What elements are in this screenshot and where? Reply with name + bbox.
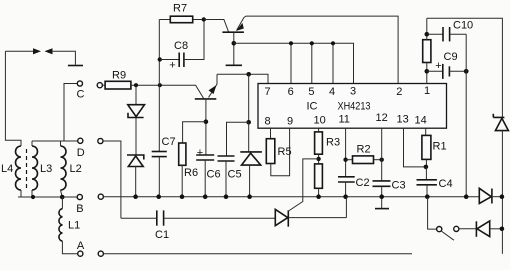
node R3 junction	[318, 154, 320, 164]
terminal A	[78, 251, 83, 256]
node C10 left	[425, 32, 430, 37]
node bus C9	[464, 194, 469, 199]
node pin12	[380, 158, 384, 162]
wire L3 bottom	[31, 190, 33, 197]
capacitor C10	[427, 33, 443, 35]
capacitor C3	[373, 180, 391, 182]
svg-text:6: 6	[288, 86, 294, 98]
svg-text:C2: C2	[356, 177, 370, 189]
svg-text:L4: L4	[1, 163, 13, 175]
zener diode VD2	[128, 156, 143, 167]
svg-text:1: 1	[424, 85, 430, 97]
diode VD5 on bus	[479, 188, 491, 203]
resistor R8	[423, 40, 431, 63]
svg-text:+: +	[435, 60, 441, 72]
wire pin8 stub	[270, 128, 272, 139]
ground plate Q1	[226, 64, 242, 66]
svg-text:L2: L2	[70, 163, 82, 175]
transistor Q1	[204, 20, 229, 32]
resistor R5	[266, 139, 275, 164]
node pin5 tap	[310, 41, 314, 45]
wire top right rail	[427, 18, 503, 117]
capacitor C7	[152, 151, 167, 153]
svg-text:C10: C10	[453, 20, 473, 32]
IC XH4213 U1	[258, 84, 447, 129]
resistor R6	[179, 143, 186, 165]
svg-text:R3: R3	[326, 137, 340, 149]
node bus C7	[156, 194, 161, 199]
node pin11	[343, 158, 347, 162]
svg-text:A: A	[77, 240, 85, 252]
wire R9 to Q2 base	[131, 85, 204, 98]
wire pin13 to R1 node	[404, 128, 426, 167]
spark gap left electrode	[5, 50, 36, 52]
node pin6 tap	[289, 41, 293, 45]
wire left antenna rail	[5, 51, 21, 146]
terminal D	[78, 138, 83, 143]
capacitor C4	[425, 167, 427, 180]
node R6 branch	[204, 119, 209, 124]
node C9 left	[425, 69, 430, 74]
svg-text:+: +	[169, 60, 175, 72]
inductor L4	[16, 146, 21, 190]
wire L4 bottom	[20, 190, 22, 197]
svg-text:4: 4	[329, 86, 335, 98]
node R1 C4	[424, 165, 429, 170]
svg-text:D: D	[77, 147, 85, 159]
node pin4 tap	[331, 41, 335, 45]
capacitor C2	[338, 176, 355, 178]
node bus C5	[224, 194, 229, 199]
wire Q2 collector to pin7	[217, 74, 268, 83]
svg-text:3: 3	[350, 86, 356, 98]
wire D to C1 line	[103, 141, 121, 218]
wire L2 top stub	[60, 141, 62, 146]
svg-text:R6: R6	[184, 167, 198, 179]
svg-text:9: 9	[287, 115, 293, 127]
node C5 diode branch	[246, 120, 251, 125]
capacitor C8	[158, 57, 162, 61]
node R7 output	[202, 17, 206, 21]
zener diode VD1	[128, 105, 145, 117]
resistor R1	[422, 135, 431, 159]
terminal input D pair	[98, 138, 103, 143]
svg-text:11: 11	[339, 114, 350, 126]
svg-text:C7: C7	[162, 136, 176, 148]
wire C9 C10 column to bus	[465, 34, 467, 197]
resistor R2	[346, 159, 353, 161]
wire bias row pins 6 5 4 3	[234, 43, 354, 83]
node bus C6	[203, 194, 208, 199]
bottom rail A	[103, 253, 412, 255]
node bus R6	[180, 194, 185, 199]
wire L3 top stub	[31, 141, 33, 146]
svg-text:R7: R7	[173, 3, 187, 15]
node C9 right	[464, 69, 469, 74]
terminal input A pair	[98, 251, 103, 256]
wire C5 branch	[227, 122, 249, 156]
node right rail switch	[500, 227, 505, 232]
wire zener to bus	[135, 167, 137, 197]
svg-text:C6: C6	[207, 169, 221, 181]
wire Q1 collector	[233, 32, 235, 65]
node right rail bus	[500, 194, 505, 199]
svg-text:+: +	[197, 147, 203, 159]
wire pin12 stub	[381, 128, 383, 181]
diode VD3	[248, 122, 250, 152]
svg-text:C8: C8	[174, 40, 188, 52]
inductor L2	[61, 146, 67, 190]
svg-text:7: 7	[265, 86, 271, 98]
svg-text:C5: C5	[228, 169, 242, 181]
wire pin1 stub	[426, 71, 428, 84]
node bus VD3	[247, 194, 252, 199]
svg-text:IC: IC	[307, 101, 318, 113]
svg-text:C: C	[77, 89, 85, 101]
terminal B	[77, 194, 82, 199]
svg-text:R1: R1	[433, 141, 447, 153]
wire between zeners	[135, 118, 137, 156]
wire Q2 emitter down	[205, 99, 207, 155]
svg-text:R2: R2	[357, 144, 371, 156]
svg-text:13: 13	[397, 114, 409, 126]
wire coil common line to B	[18, 196, 77, 198]
svg-text:XH4213: XH4213	[338, 101, 371, 113]
terminal input B pair	[98, 194, 103, 199]
wire pin10 stub	[318, 128, 320, 132]
node bus R4	[316, 194, 321, 199]
node bus C4	[425, 194, 430, 199]
transistor Q2	[195, 98, 217, 100]
zener diode VD4	[493, 114, 504, 118]
node bus C2	[343, 194, 348, 199]
node L2 L1 junction	[60, 195, 65, 200]
bus main rail	[103, 196, 479, 198]
svg-text:8: 8	[265, 115, 271, 127]
switch S	[428, 197, 437, 229]
svg-text:C1: C1	[155, 229, 169, 241]
node bus zener	[133, 194, 138, 199]
capacitor C5	[218, 155, 235, 157]
capacitor C1 line	[121, 217, 157, 219]
transformer core	[26, 149, 28, 189]
wire Q1 emitter rail to pin2	[244, 16, 398, 83]
terminal input C pair	[97, 83, 102, 88]
node bus C3	[379, 194, 384, 199]
inductor L1	[61, 197, 63, 209]
svg-text:L3: L3	[40, 163, 52, 175]
wire gate line	[289, 159, 319, 211]
wire tap line to D	[32, 140, 77, 142]
wire R5 to pin9	[271, 128, 290, 176]
wire L2 bottom	[61, 190, 63, 197]
svg-text:14: 14	[415, 115, 427, 127]
svg-text:5: 5	[308, 86, 314, 98]
node L3 junction	[31, 195, 35, 199]
ground tick below C3	[381, 197, 383, 209]
node pin7 branch	[246, 72, 251, 77]
svg-text:12: 12	[376, 112, 388, 124]
wire C terminal drop	[64, 84, 77, 142]
wire branch down	[248, 74, 250, 122]
inductor L3	[32, 146, 38, 190]
wire to R6	[183, 122, 206, 143]
svg-text:2: 2	[396, 86, 402, 98]
resistor R4	[315, 164, 323, 188]
svg-text:R9: R9	[112, 70, 126, 82]
wire SCR cathode to bus	[345, 197, 347, 218]
svg-text:C9: C9	[444, 51, 458, 63]
resistor R9	[103, 84, 106, 86]
spark gap right electrode	[45, 48, 53, 54]
svg-text:B: B	[76, 203, 83, 215]
svg-text:C4: C4	[439, 178, 453, 190]
wire pin11 stub	[345, 128, 347, 177]
svg-text:10: 10	[314, 115, 326, 127]
node R9 output	[134, 83, 138, 87]
resistor R7	[159, 19, 170, 21]
wire zener column	[135, 85, 137, 105]
node column junction	[158, 83, 162, 87]
wire column R7 C7	[158, 20, 160, 152]
svg-text:L1: L1	[68, 220, 80, 232]
resistor R3	[315, 132, 323, 154]
ground plate of spark gap	[68, 65, 83, 67]
wire pin14 stub	[425, 128, 427, 135]
wire L1 to A	[62, 241, 77, 254]
diode VD6	[475, 221, 477, 237]
thyristor VS	[275, 209, 288, 225]
node Q1 collector	[232, 41, 237, 46]
terminal C	[77, 81, 82, 86]
svg-text:C3: C3	[392, 180, 406, 192]
